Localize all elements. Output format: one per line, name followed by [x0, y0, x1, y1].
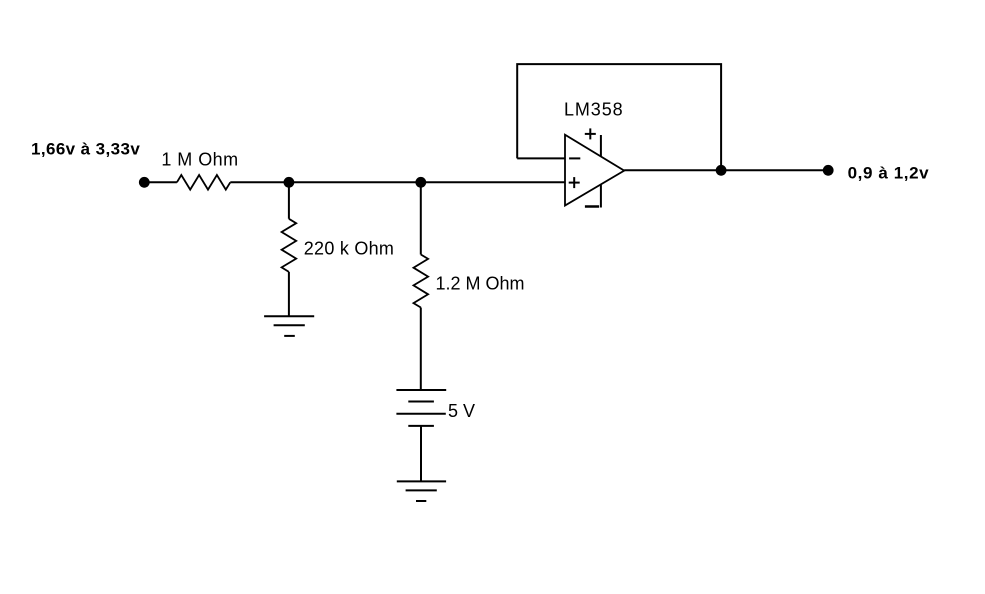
feedback wire [517, 64, 721, 170]
resistor R3 1.2 M Ohm [414, 255, 429, 308]
ground 1 [264, 316, 314, 336]
wire inverting input stub [517, 157, 565, 159]
wire node B down to R3 [420, 182, 422, 254]
wire node A down to R2 [288, 182, 290, 219]
svg-text:1.2 M Ohm: 1.2 M Ohm [436, 274, 525, 294]
input terminal dot [139, 177, 150, 188]
op-amp U1 triangle [565, 135, 624, 206]
resistor R2 220 k Ohm [282, 219, 297, 272]
node A junction dot [284, 177, 295, 188]
svg-text:LM358: LM358 [564, 100, 624, 120]
node OUT junction dot [716, 165, 727, 176]
svg-text:220 k Ohm: 220 k Ohm [304, 238, 394, 258]
wire node B to op-amp non-inverting input [421, 181, 565, 183]
wire R3 to battery [420, 308, 422, 391]
node B junction dot [415, 177, 426, 188]
op-amp inverting input minus marker [569, 157, 580, 159]
op-amp V- minus marker [585, 205, 599, 208]
op-amp non-inverting input plus marker [569, 177, 580, 188]
op-amp V- power pin [600, 185, 602, 208]
ground 2 [397, 481, 446, 501]
svg-text:0,9 à 1,2v: 0,9 à 1,2v [848, 163, 930, 182]
wire input dot to R1 [144, 181, 177, 183]
op-amp V+ plus marker [585, 128, 596, 139]
wire R2 to ground 1 [288, 272, 290, 316]
wire R1 to node A [230, 181, 289, 183]
resistor R1 1 M Ohm [177, 175, 230, 190]
svg-text:1,66v à 3,33v: 1,66v à 3,33v [31, 140, 140, 159]
svg-text:1 M Ohm: 1 M Ohm [161, 150, 238, 170]
battery V1 [396, 390, 446, 426]
svg-text:5 V: 5 V [448, 401, 475, 421]
op-amp V+ power pin [600, 135, 602, 156]
output terminal dot [823, 165, 834, 176]
wire battery to ground 2 [420, 426, 422, 482]
wire op-amp output [624, 169, 828, 171]
wire node A to node B [289, 181, 421, 183]
